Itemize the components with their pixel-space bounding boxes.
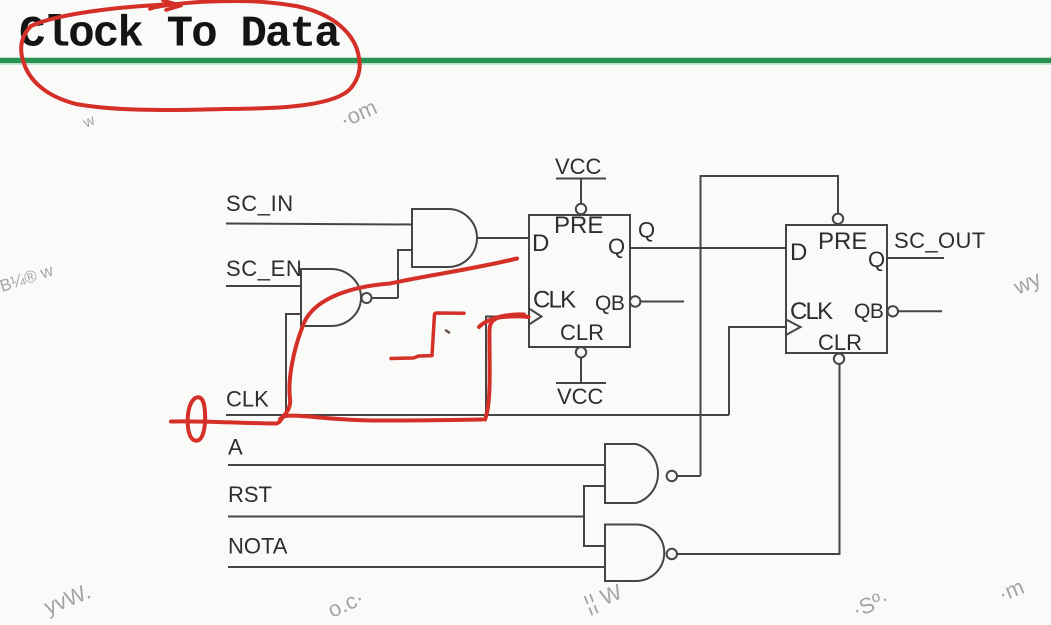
svg-text:CLK: CLK xyxy=(533,287,576,314)
wire U4 CLR to NAND4 out xyxy=(677,364,839,554)
power VCC bottom symbol bar xyxy=(556,382,606,384)
net NAND3-out to U4 PRE xyxy=(701,176,839,476)
annotation: small dot xyxy=(446,331,449,333)
svg-text:·om: ·om xyxy=(336,94,381,132)
svg-text:·m: ·m xyxy=(995,574,1028,607)
node NOTA wire xyxy=(228,566,605,568)
svg-text:Q: Q xyxy=(638,218,655,243)
flip-flop U4 QB bubble xyxy=(888,306,898,316)
svg-text:w: w xyxy=(80,112,98,132)
node CLK wire xyxy=(226,414,729,416)
svg-text:wy: wy xyxy=(1009,266,1045,300)
nand-gate U5 bubble xyxy=(667,471,677,481)
wire U3 CLR to VCC bottom xyxy=(580,358,582,384)
nand-gate U6 bubble xyxy=(667,549,677,559)
svg-text:SC_IN: SC_IN xyxy=(226,191,294,216)
annotation: second pass near FF1 clock xyxy=(479,314,524,327)
svg-text:SC_EN: SC_EN xyxy=(226,256,302,281)
svg-text:QB: QB xyxy=(854,300,883,323)
nand-gate U5 body xyxy=(605,444,658,503)
power VCC top symbol xyxy=(556,178,606,180)
svg-text:NOTA: NOTA xyxy=(228,534,288,559)
nand-gate U2 body xyxy=(301,269,361,326)
svg-text:Q: Q xyxy=(868,247,885,272)
svg-text:CLR: CLR xyxy=(818,330,862,355)
svg-text:VCC: VCC xyxy=(555,154,602,179)
node SC_EN wire xyxy=(226,285,301,287)
svg-text:B¼® w: B¼® w xyxy=(0,261,56,296)
flip-flop U3 QB bubble xyxy=(630,296,640,306)
annotation: ellipse circled around title xyxy=(21,1,360,110)
nand-gate U2 output wire xyxy=(372,297,399,299)
annotation: stroke from U2 down to CLK wire xyxy=(280,328,302,419)
svg-text:CLR: CLR xyxy=(560,320,604,345)
svg-text:CLK: CLK xyxy=(790,298,833,325)
nand-gate U5 output wire xyxy=(677,475,701,477)
red annotations xyxy=(21,1,528,441)
annotation: stroke along CLK wire xyxy=(171,416,482,424)
svg-text:PRE: PRE xyxy=(818,228,867,255)
annotation: sweeping curve to FF1 D xyxy=(302,259,517,329)
flip-flop U3 CLR bubble xyxy=(576,347,586,357)
wire CLK to FF2 clock xyxy=(729,327,786,415)
flip-flop U4 PRE bubble xyxy=(833,214,843,224)
and-gate U1 input stub from U2 xyxy=(398,250,412,298)
schematic text labels xyxy=(226,154,986,559)
annotation: arrow flick on ellipse xyxy=(150,1,181,11)
wire CLK to FF1 clock xyxy=(486,317,529,416)
schematic wires and gates xyxy=(226,176,944,581)
svg-text:Q: Q xyxy=(608,234,625,259)
svg-text:CLK: CLK xyxy=(226,387,269,412)
flip-flop U4 CLR bubble xyxy=(834,354,844,364)
wire CLK line to U2 lower input xyxy=(286,314,301,415)
annotation: stroke rising to FF1 clock xyxy=(485,316,529,419)
svg-text:PRE: PRE xyxy=(554,212,603,239)
node A wire xyxy=(228,464,605,466)
flip-flop U4 clock triangle xyxy=(786,320,801,336)
flip-flop U4 box xyxy=(786,225,887,353)
and-gate U1 body xyxy=(412,209,477,267)
nand-gate U6 body xyxy=(605,525,664,582)
wire RST split to NAND3 and NAND4 xyxy=(584,486,605,546)
annotation: step waveform sketch xyxy=(391,313,464,359)
wire VCC to U3 PRE xyxy=(580,179,582,204)
flip-flop U3 box xyxy=(529,215,630,347)
node RST wire xyxy=(228,516,584,518)
flip-flop U3 clock triangle xyxy=(529,309,542,325)
svg-text:D: D xyxy=(790,239,807,266)
node SC_IN wire xyxy=(226,224,412,225)
svg-text:o.c·: o.c· xyxy=(324,585,368,623)
annotation: small oval on CLK line xyxy=(188,397,205,440)
svg-text:¦¦ W: ¦¦ W xyxy=(581,579,626,617)
wire U4 QB stub xyxy=(898,310,942,312)
svg-text:yvW.: yvW. xyxy=(41,579,95,620)
svg-text:QB: QB xyxy=(595,292,624,315)
svg-text:SC_OUT: SC_OUT xyxy=(894,228,986,253)
wire U3 QB stub xyxy=(640,301,684,303)
svg-text:A: A xyxy=(228,435,243,460)
svg-text:VCC: VCC xyxy=(557,384,604,409)
nand-gate U2 bubble xyxy=(362,293,372,303)
svg-text:D: D xyxy=(532,230,549,257)
green divider line xyxy=(0,57,1051,65)
svg-text:RST: RST xyxy=(228,482,272,507)
wire U3 Q to U4 D xyxy=(630,247,786,249)
wire U4 Q / SC_OUT xyxy=(887,257,944,259)
and-gate U1 output wire to FF1 D xyxy=(477,237,529,239)
svg-text:·Sº·: ·Sº· xyxy=(849,585,893,622)
flip-flop U3 PRE bubble xyxy=(576,204,586,214)
